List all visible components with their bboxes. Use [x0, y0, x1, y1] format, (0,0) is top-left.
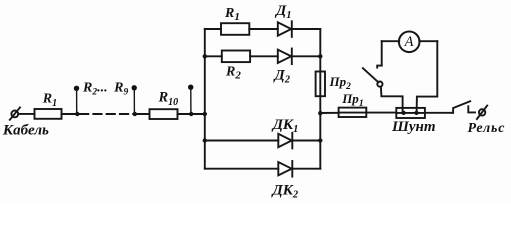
- switch (rail disconnect): [453, 101, 470, 113]
- fuse Пр1: [339, 108, 367, 117]
- resistor R2 (bridge branch): [222, 51, 250, 63]
- node: R2 branch left: [203, 54, 207, 58]
- node: ДК1 branch right: [318, 138, 322, 142]
- wire: [135, 113, 150, 115]
- svg-text:R2... R9: R2... R9: [82, 81, 128, 98]
- svg-text:Кабель: Кабель: [2, 122, 49, 138]
- wire (dashed, R2...R9 omitted section): [80, 113, 134, 115]
- wire: [205, 28, 221, 30]
- svg-text:R10: R10: [158, 89, 179, 108]
- terminal: cable input: [10, 107, 20, 119]
- wire: [366, 112, 396, 114]
- wire: [292, 168, 320, 170]
- svg-text:Д2: Д2: [273, 68, 291, 86]
- wire: [205, 140, 278, 142]
- contact hook (rail side): [468, 106, 475, 112]
- wire: [249, 28, 277, 30]
- wire: [62, 113, 81, 115]
- wire: [178, 113, 205, 115]
- wire: ammeter loop left drop: [381, 41, 383, 65]
- wire: [320, 112, 338, 114]
- diode Д1: [278, 21, 292, 37]
- svg-text:R2: R2: [225, 65, 241, 82]
- resistor R1 (line): [35, 109, 62, 119]
- svg-text:R1: R1: [42, 91, 57, 109]
- tap stud 3: [188, 85, 193, 115]
- node: Д2 branch right: [318, 54, 322, 58]
- wire: [382, 40, 400, 42]
- wire: [425, 112, 453, 114]
- wire: shunt right stud riser to ammeter: [417, 41, 438, 113]
- wire: [292, 140, 320, 142]
- diode ДК1: [278, 133, 292, 149]
- svg-text:Рельс: Рельс: [468, 121, 506, 136]
- svg-text:A: A: [404, 34, 414, 50]
- node: tap 2 junction: [133, 112, 137, 116]
- diode ДК2: [278, 161, 292, 177]
- wire: switch to shunt left stud: [381, 87, 403, 113]
- wire: [250, 55, 278, 57]
- wire: [292, 55, 321, 57]
- svg-text:Пр2: Пр2: [329, 74, 352, 92]
- contact hook (ammeter switch): [377, 66, 382, 68]
- svg-text:Пр1: Пр1: [341, 91, 363, 109]
- shunt (Шунт): [396, 108, 425, 118]
- switch (ammeter) blade: [363, 68, 383, 87]
- svg-text:Д1: Д1: [274, 3, 292, 21]
- wire: [205, 168, 278, 170]
- wire: right bus: [319, 29, 321, 169]
- node: main output junction: [318, 111, 322, 115]
- svg-text:ДК2: ДК2: [271, 183, 299, 201]
- svg-text:R1: R1: [224, 6, 240, 23]
- svg-text:ДК1: ДК1: [271, 117, 299, 135]
- node: tap 3 junction: [189, 112, 193, 116]
- wire: [292, 28, 321, 30]
- terminal: rail: [477, 106, 487, 119]
- fuse Пр2: [316, 72, 325, 97]
- resistor R10: [150, 109, 178, 119]
- diode Д2: [278, 49, 292, 65]
- wire: left bus: [204, 29, 206, 169]
- tap stud 1: [74, 86, 79, 114]
- wire: [419, 40, 437, 42]
- svg-text:Шунт: Шунт: [391, 119, 436, 135]
- resistor R1 (bridge branch): [221, 23, 249, 35]
- wire: [18, 113, 34, 115]
- node: ДК1 branch left: [203, 138, 207, 142]
- node: left bus / main junction: [203, 112, 207, 116]
- ammeter A: [399, 32, 420, 53]
- tap stud 2: [132, 85, 137, 114]
- node: tap 1 junction: [75, 112, 79, 116]
- wire: [205, 55, 222, 57]
